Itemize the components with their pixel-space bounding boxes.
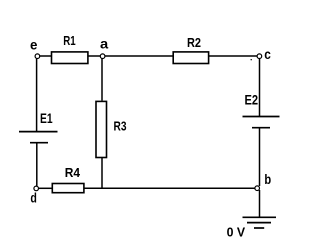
svg-text:d: d: [30, 190, 37, 206]
battery E2 short plate: [252, 127, 270, 129]
svg-text:R3: R3: [114, 118, 127, 133]
battery E2 long plate: [243, 116, 280, 118]
stray dot near c: [251, 59, 252, 60]
wire R2 to node c: [209, 55, 260, 57]
bottom wire R4 to node b: [84, 187, 255, 189]
wire E2 to node b: [259, 128, 261, 186]
resistor R4: [52, 184, 84, 193]
node e: [35, 54, 40, 59]
resistor R1: [52, 52, 88, 64]
svg-text:E1: E1: [40, 110, 53, 126]
node b: [255, 186, 260, 191]
ground line 1: [243, 216, 277, 218]
node d: [34, 186, 39, 191]
battery E1 short plate: [30, 142, 48, 144]
svg-text:a: a: [100, 36, 108, 52]
svg-text:c: c: [264, 46, 271, 62]
svg-text:R2: R2: [187, 35, 201, 50]
wire R3 to bottom wire: [101, 158, 103, 188]
svg-text:e: e: [30, 37, 38, 53]
node a: [100, 54, 105, 59]
wire E1 to node d: [36, 143, 38, 187]
wire e down to E1: [36, 58, 38, 131]
wire e to R1: [40, 55, 52, 57]
svg-text:b: b: [264, 171, 271, 187]
battery E1 long plate: [19, 131, 58, 133]
svg-text:R4: R4: [65, 165, 81, 180]
wire b down to ground: [259, 190, 261, 217]
resistor R3: [96, 101, 107, 157]
resistor R2: [173, 52, 208, 64]
wire R1 to R2 through node a: [89, 55, 174, 57]
wire d to R4: [39, 187, 52, 189]
wire a down to R3: [101, 58, 103, 101]
svg-text:0 V: 0 V: [227, 225, 246, 240]
svg-text:E2: E2: [245, 92, 259, 108]
ground line 3: [254, 227, 264, 229]
svg-text:R1: R1: [63, 33, 75, 48]
wire c down to E2: [259, 58, 261, 116]
ground line 2: [247, 222, 271, 224]
node c: [257, 54, 262, 59]
